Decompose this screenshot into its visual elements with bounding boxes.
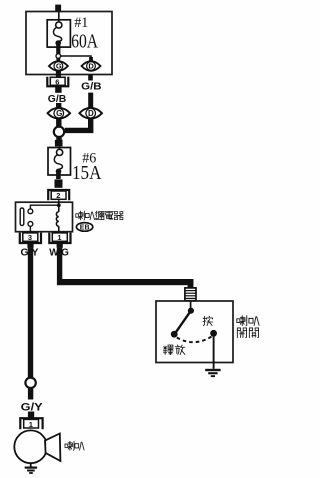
node inline connector circle xyxy=(54,127,64,137)
svg-text:1: 1 xyxy=(57,233,61,242)
node junction xyxy=(56,54,61,59)
horn relay box xyxy=(16,202,73,232)
wire below G inline xyxy=(56,119,61,127)
wire xyxy=(56,103,61,109)
pin 3 connector bracket xyxy=(20,233,41,243)
horn pin 1 bracket xyxy=(20,418,42,429)
fuse box #1 xyxy=(26,12,112,75)
label horn switch 喇叭開關 xyxy=(237,316,259,338)
wire stub below fuse 6 xyxy=(55,179,63,187)
svg-text:#1: #1 xyxy=(74,15,88,31)
wire to ground xyxy=(30,463,32,467)
wire xyxy=(56,58,60,62)
pin 6 connector bracket xyxy=(47,77,68,87)
wire pin2 to node xyxy=(58,200,60,205)
svg-text:3: 3 xyxy=(28,233,32,242)
release contact xyxy=(171,331,178,338)
ground code EB oval xyxy=(76,223,92,232)
wire stub xyxy=(55,87,61,93)
svg-text:D: D xyxy=(88,62,94,71)
svg-text:G: G xyxy=(56,62,62,71)
switch pivot contact xyxy=(188,308,194,314)
label press 按 xyxy=(203,316,213,325)
svg-text:15A: 15A xyxy=(72,163,102,184)
relay contact bottom xyxy=(28,222,33,227)
coil cord connector (striped) xyxy=(185,288,196,301)
wire contact to pin3 xyxy=(29,226,31,232)
switch arm xyxy=(175,311,191,335)
wire terminal square xyxy=(55,140,63,147)
wire from D inline down and left xyxy=(65,119,91,131)
connector G (fuse box) xyxy=(49,61,68,71)
label horn relay 喇叭繼電器 xyxy=(76,211,123,220)
node inline connector circle (G/Y) xyxy=(25,378,35,388)
wire xyxy=(56,45,60,54)
svg-text:EB: EB xyxy=(80,225,90,232)
relay armature bar xyxy=(20,208,24,226)
svg-text:6: 6 xyxy=(55,77,59,86)
press contact xyxy=(210,330,217,337)
svg-text:D: D xyxy=(88,109,94,118)
wire G/Y relay to horn xyxy=(28,248,33,378)
dashed travel arc xyxy=(177,336,212,342)
svg-text:2: 2 xyxy=(56,191,60,200)
wire contact to node xyxy=(30,205,58,209)
connector D (fuse box) xyxy=(82,61,101,71)
wire stub xyxy=(28,412,34,418)
svg-text:G: G xyxy=(56,109,62,118)
node relay xyxy=(57,203,61,207)
relay coil xyxy=(56,205,58,232)
relay contact top xyxy=(28,209,33,214)
svg-text:60A: 60A xyxy=(71,31,98,52)
connector G (inline) xyxy=(48,108,71,119)
ground (horn) xyxy=(25,467,37,474)
wire stub G to pin 6 xyxy=(56,71,61,77)
wire xyxy=(28,388,33,399)
wire stubs below pins xyxy=(27,243,33,248)
pin 2 connector bracket xyxy=(48,190,69,200)
wire xyxy=(58,11,60,22)
label horn 喇叭 xyxy=(65,441,84,450)
horn body xyxy=(14,430,47,463)
pin 1 connector bracket xyxy=(49,233,70,243)
fuse F6 xyxy=(48,146,71,179)
connector D (inline) xyxy=(79,108,102,119)
wire xyxy=(88,93,93,109)
fuse F1 xyxy=(47,20,70,47)
wire xyxy=(56,137,61,140)
horn trumpet xyxy=(45,434,60,462)
wire press contact to ground xyxy=(213,333,215,369)
svg-text:1: 1 xyxy=(29,420,33,429)
wire branch to D xyxy=(61,56,91,60)
battery feed terminal xyxy=(55,5,61,12)
label release 釋放 xyxy=(163,345,185,355)
ground (switch) xyxy=(205,369,220,377)
wire W/G relay to switch xyxy=(57,248,62,280)
svg-text:G/B: G/B xyxy=(81,82,101,93)
wire stub below box right xyxy=(88,75,93,81)
wire connector to switch contact xyxy=(190,301,192,308)
horn switch box xyxy=(156,301,233,363)
